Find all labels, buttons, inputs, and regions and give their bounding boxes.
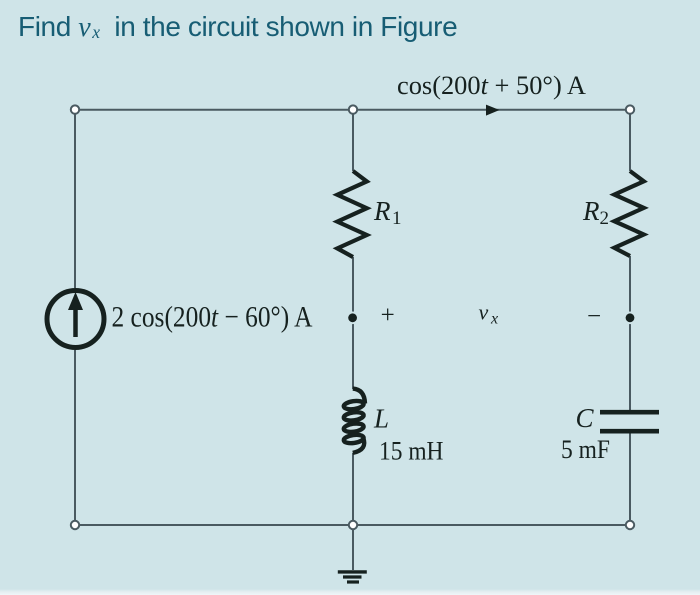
svg-text:−: − <box>587 303 601 330</box>
svg-text:R: R <box>582 196 600 226</box>
svg-text:L: L <box>373 404 389 434</box>
svg-text:2 cos(200t − 60°) A: 2 cos(200t − 60°) A <box>112 301 313 334</box>
svg-text:+: + <box>381 302 395 329</box>
svg-text:2: 2 <box>600 208 610 229</box>
svg-text:x: x <box>490 311 498 328</box>
svg-text:1: 1 <box>392 208 402 229</box>
svg-text:C: C <box>576 403 595 433</box>
svg-text:cos(200t + 50°) A: cos(200t + 50°) A <box>397 71 586 100</box>
svg-text:15 mH: 15 mH <box>379 437 444 466</box>
svg-text:5 mF: 5 mF <box>561 435 610 464</box>
svg-text:R: R <box>373 196 391 226</box>
svg-text:v: v <box>479 300 489 325</box>
